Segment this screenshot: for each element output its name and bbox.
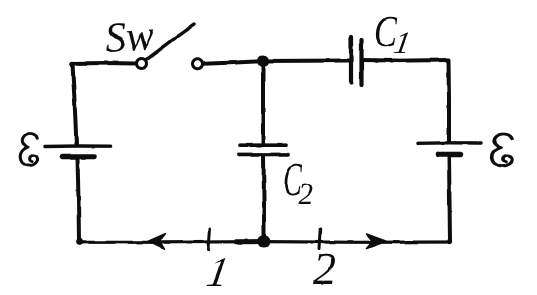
wire bottom [79, 240, 450, 244]
label EMF left [20, 134, 37, 166]
wire junction to C1 [263, 59, 349, 64]
battery E right short plate [438, 152, 461, 158]
corner blob top-right [445, 58, 450, 63]
node junction top [257, 55, 269, 67]
svg-text:2: 2 [298, 176, 314, 211]
svg-text:2: 2 [313, 243, 336, 294]
label EMF right [492, 134, 513, 166]
wire top-left horizontal [72, 61, 137, 66]
switch Sw contact circle right [193, 59, 203, 69]
battery E left short plate [63, 154, 95, 160]
tick mark 1 [209, 229, 211, 250]
arrow current 2 (right) [367, 234, 387, 249]
switch Sw lever [146, 25, 195, 61]
battery E left (long plate) [45, 144, 111, 148]
corner blob top-left [70, 61, 76, 67]
node junction bottom [258, 235, 271, 248]
switch Sw contact circle left [137, 59, 147, 69]
wire C1 to top-right corner [364, 58, 449, 63]
wire switch to junction [203, 61, 261, 64]
wire bottom heavy segment [236, 239, 263, 244]
capacitor C2 bottom plate [239, 153, 288, 157]
tick mark 2 [320, 230, 321, 250]
corner blob bottom-left [76, 238, 83, 245]
battery E right long plate [418, 141, 481, 145]
wire left vertical lower [78, 158, 80, 242]
corner blob bottom-right [447, 239, 452, 244]
wire left vertical upper [73, 64, 77, 146]
wire middle vertical upper [261, 61, 265, 145]
svg-text:Sw: Sw [103, 13, 155, 62]
capacitor C1 left plate [349, 37, 353, 83]
wire middle vertical lower [262, 156, 267, 242]
arrow current 1 (left) [148, 234, 166, 250]
capacitor C1 right plate [359, 40, 363, 85]
wire right vertical upper [447, 60, 452, 143]
wire right vertical lower [449, 157, 450, 242]
capacitor C2 top plate [240, 143, 286, 147]
